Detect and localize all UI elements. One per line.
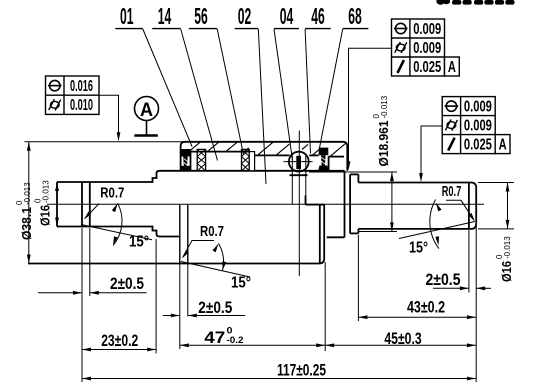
svg-text:2±0.5: 2±0.5 [198, 299, 232, 317]
left groove line 1 [81, 182, 83, 227]
ext line x89.8 [89, 228, 91, 296]
bottom slot right edge [319, 205, 324, 264]
outer ring bore line middle [254, 154, 289, 156]
R0.7 right leader [446, 200, 474, 220]
svg-text:14: 14 [158, 3, 172, 29]
svg-text:Ø16: Ø16 [38, 205, 53, 226]
svg-text:-0.013: -0.013 [503, 236, 512, 259]
leader line 68 [319, 29, 343, 151]
svg-text:-0.2: -0.2 [227, 335, 244, 346]
ext line x468.9 lower [468, 230, 470, 293]
label 14 underline [152, 28, 180, 30]
dim 45+-0.3 [325, 344, 476, 346]
outer ring bore line left [191, 151, 249, 153]
bearing ball [289, 152, 309, 172]
label 46 underline [305, 28, 331, 30]
svg-text:R0.7: R0.7 [442, 184, 462, 200]
dim 47-0.2 [180, 344, 325, 346]
R0.7 middle leader [183, 241, 214, 257]
svg-text:23±0.2: 23±0.2 [101, 332, 138, 350]
right seal (rubber, solid) [318, 148, 328, 171]
right collar ledge top [350, 173, 358, 175]
ball horizontal centerline [284, 161, 313, 163]
dim 43+-0.2 [358, 316, 476, 318]
svg-text:15°: 15° [409, 240, 428, 257]
right shaft section top [358, 183, 476, 188]
ext line x82 [81, 228, 83, 382]
seal case line right [328, 157, 330, 171]
raceway groove bottom [290, 174, 308, 176]
15deg left arc arrows [112, 203, 118, 212]
dia16R arrows [506, 183, 510, 192]
FCF1 leader arrow [117, 132, 121, 141]
bottom slot left vertical [305, 196, 307, 205]
svg-text:0.009: 0.009 [413, 21, 441, 38]
FCF2 leader [349, 48, 392, 168]
left slinger (cross-hatched) [197, 149, 205, 170]
svg-text:0.009: 0.009 [413, 40, 441, 57]
leader line 04 [274, 29, 293, 160]
raceway shoulder left [291, 155, 293, 204]
svg-text:2±0.5: 2±0.5 [426, 271, 461, 289]
ext line x325.2 [324, 262, 326, 351]
svg-text:-0.013: -0.013 [380, 95, 389, 118]
FCF3 leader [421, 126, 442, 180]
svg-text:Ø18.961: Ø18.961 [376, 121, 391, 167]
svg-text:2±0.5: 2±0.5 [110, 275, 144, 293]
dia16R extension top [478, 182, 514, 184]
svg-text:56: 56 [194, 3, 208, 29]
15deg right line [399, 222, 475, 239]
svg-text:15°: 15° [129, 233, 149, 250]
ball pocket bar [296, 156, 301, 169]
15deg right arc [430, 200, 439, 249]
dia16L text [34, 180, 53, 226]
outer ring bottom surface [28, 263, 319, 265]
second slinger (cross-hatched) [242, 149, 250, 170]
svg-text:0.016: 0.016 [70, 78, 93, 95]
dim 2+-0.5 middle [163, 315, 180, 317]
dia38.1 dimension line [28, 142, 30, 264]
svg-text:Ø38.1: Ø38.1 [19, 207, 34, 240]
label 04 underline [274, 28, 299, 30]
ext line x358.4 [357, 235, 359, 321]
ext line x179.8 lower [179, 264, 181, 350]
ext line x156.1 [155, 239, 157, 354]
dia16L dimension line [56, 182, 58, 227]
svg-text:-0.013: -0.013 [23, 182, 32, 205]
svg-text:117±0.25: 117±0.25 [277, 361, 326, 379]
svg-text:47: 47 [204, 328, 225, 347]
svg-text:01: 01 [120, 3, 134, 29]
FCF1 leader [99, 95, 119, 139]
outer ring hatching [189, 142, 347, 156]
leader line 56 [217, 29, 243, 155]
dia18.961 extension top [309, 171, 397, 173]
left groove line 2 [89, 182, 91, 227]
datum A stem [146, 121, 148, 136]
svg-text:A: A [499, 137, 507, 154]
shaft upper profile [57, 171, 345, 182]
15deg middle arc [219, 244, 224, 271]
right shoulder chamfer line [349, 174, 351, 233]
bottom seal line 2 [187, 205, 189, 264]
feature control frame right (0.009/0.009/0.025 A) [442, 97, 495, 154]
feature control frame middle (0.009/0.009/0.025 A) [392, 19, 445, 76]
svg-text:0.025: 0.025 [413, 59, 441, 76]
label 68 underline [343, 28, 369, 30]
svg-text:15°: 15° [231, 275, 251, 292]
dia18.961 arrows [390, 172, 394, 181]
bottom seal line 1 [179, 205, 181, 264]
left seal (rubber, solid) [180, 149, 190, 171]
svg-text:68: 68 [348, 3, 362, 29]
dia16R dimension line [507, 183, 509, 229]
leader line 46 [305, 29, 310, 154]
15deg middle arc arrows [212, 244, 218, 253]
dim 2+-0.5 right [433, 287, 469, 289]
right collar step [357, 174, 359, 233]
centerline of shaft [47, 203, 484, 205]
svg-text:A: A [448, 59, 456, 76]
seat bottom right segment [327, 236, 345, 238]
dia16R text [495, 236, 514, 282]
right collar ledge bottom [350, 232, 358, 234]
datum A circle [135, 97, 159, 121]
svg-text:02: 02 [238, 3, 252, 29]
leader line 14 [181, 29, 218, 161]
FCF2 leader arrow [347, 161, 351, 170]
cut-off text at top edge [437, 0, 515, 5]
datum A base bar [134, 134, 158, 136]
leader line 02 [258, 29, 266, 184]
svg-text:R0.7: R0.7 [200, 224, 224, 240]
svg-text:43±0.2: 43±0.2 [407, 298, 445, 316]
dia38.1 extension top [25, 141, 185, 143]
ext line x187.8 lower [187, 264, 189, 317]
right shaft end face [475, 188, 477, 224]
bottom slot top line [306, 204, 325, 206]
dia18.961 text [372, 95, 391, 166]
dia18.961 dimension line [391, 172, 393, 232]
seal case line left [190, 152, 192, 171]
ext line x476.2 lower [475, 226, 477, 382]
svg-text:R0.7: R0.7 [100, 186, 124, 202]
dim 23+-0.2 [82, 349, 156, 351]
shaft lower profile [57, 227, 180, 237]
svg-text:0.009: 0.009 [464, 99, 492, 116]
svg-text:0.025: 0.025 [464, 137, 492, 154]
shaft left end face [56, 182, 58, 227]
ball vertical centerline [298, 131, 300, 277]
R0.7 left arrow [84, 212, 91, 220]
dia38.1 text [15, 182, 34, 240]
15deg left arc [113, 203, 122, 245]
svg-text:46: 46 [311, 3, 325, 29]
leader line 01 [143, 29, 192, 147]
svg-text:45±0.3: 45±0.3 [384, 330, 421, 348]
raceway shoulder right [305, 155, 307, 204]
right shaft section bottom [358, 224, 476, 229]
FCF3 leader arrow [419, 173, 423, 182]
dia16L arrows [55, 182, 59, 191]
svg-text:Ø16: Ø16 [499, 261, 514, 282]
dim 2+-0.5 left [38, 292, 82, 294]
dia38.1 arrows [27, 142, 31, 151]
feature control frame top-left (0.016 / 0.010) [46, 76, 100, 114]
outer ring bore line right [328, 156, 344, 158]
bearing outer ring outline [181, 142, 348, 171]
label 01 underline [115, 28, 143, 30]
outer ring bore line right of ball [309, 154, 318, 156]
label 56 underline [189, 28, 217, 30]
svg-text:0.009: 0.009 [464, 118, 492, 135]
right groove line [468, 183, 470, 229]
dim 117+-0.25 [82, 378, 476, 380]
svg-text:0.010: 0.010 [70, 97, 93, 114]
svg-text:A: A [140, 99, 153, 121]
dia18.961 extension bottom [358, 231, 397, 233]
label 02 underline [235, 28, 259, 30]
bearing seat right shoulder [344, 171, 346, 238]
15deg left line [81, 225, 152, 240]
R0.7 middle arrow [182, 250, 189, 258]
svg-text:-0.013: -0.013 [42, 180, 51, 203]
bottom slot left edge [319, 205, 321, 263]
dia16R extension bottom [478, 228, 514, 230]
svg-text:04: 04 [280, 3, 294, 29]
R0.7 left leader [85, 204, 99, 219]
15deg middle line [181, 262, 250, 278]
R0.7 right arrow [468, 213, 475, 222]
15deg right arc arrows [436, 203, 442, 212]
spacer block [249, 152, 254, 171]
